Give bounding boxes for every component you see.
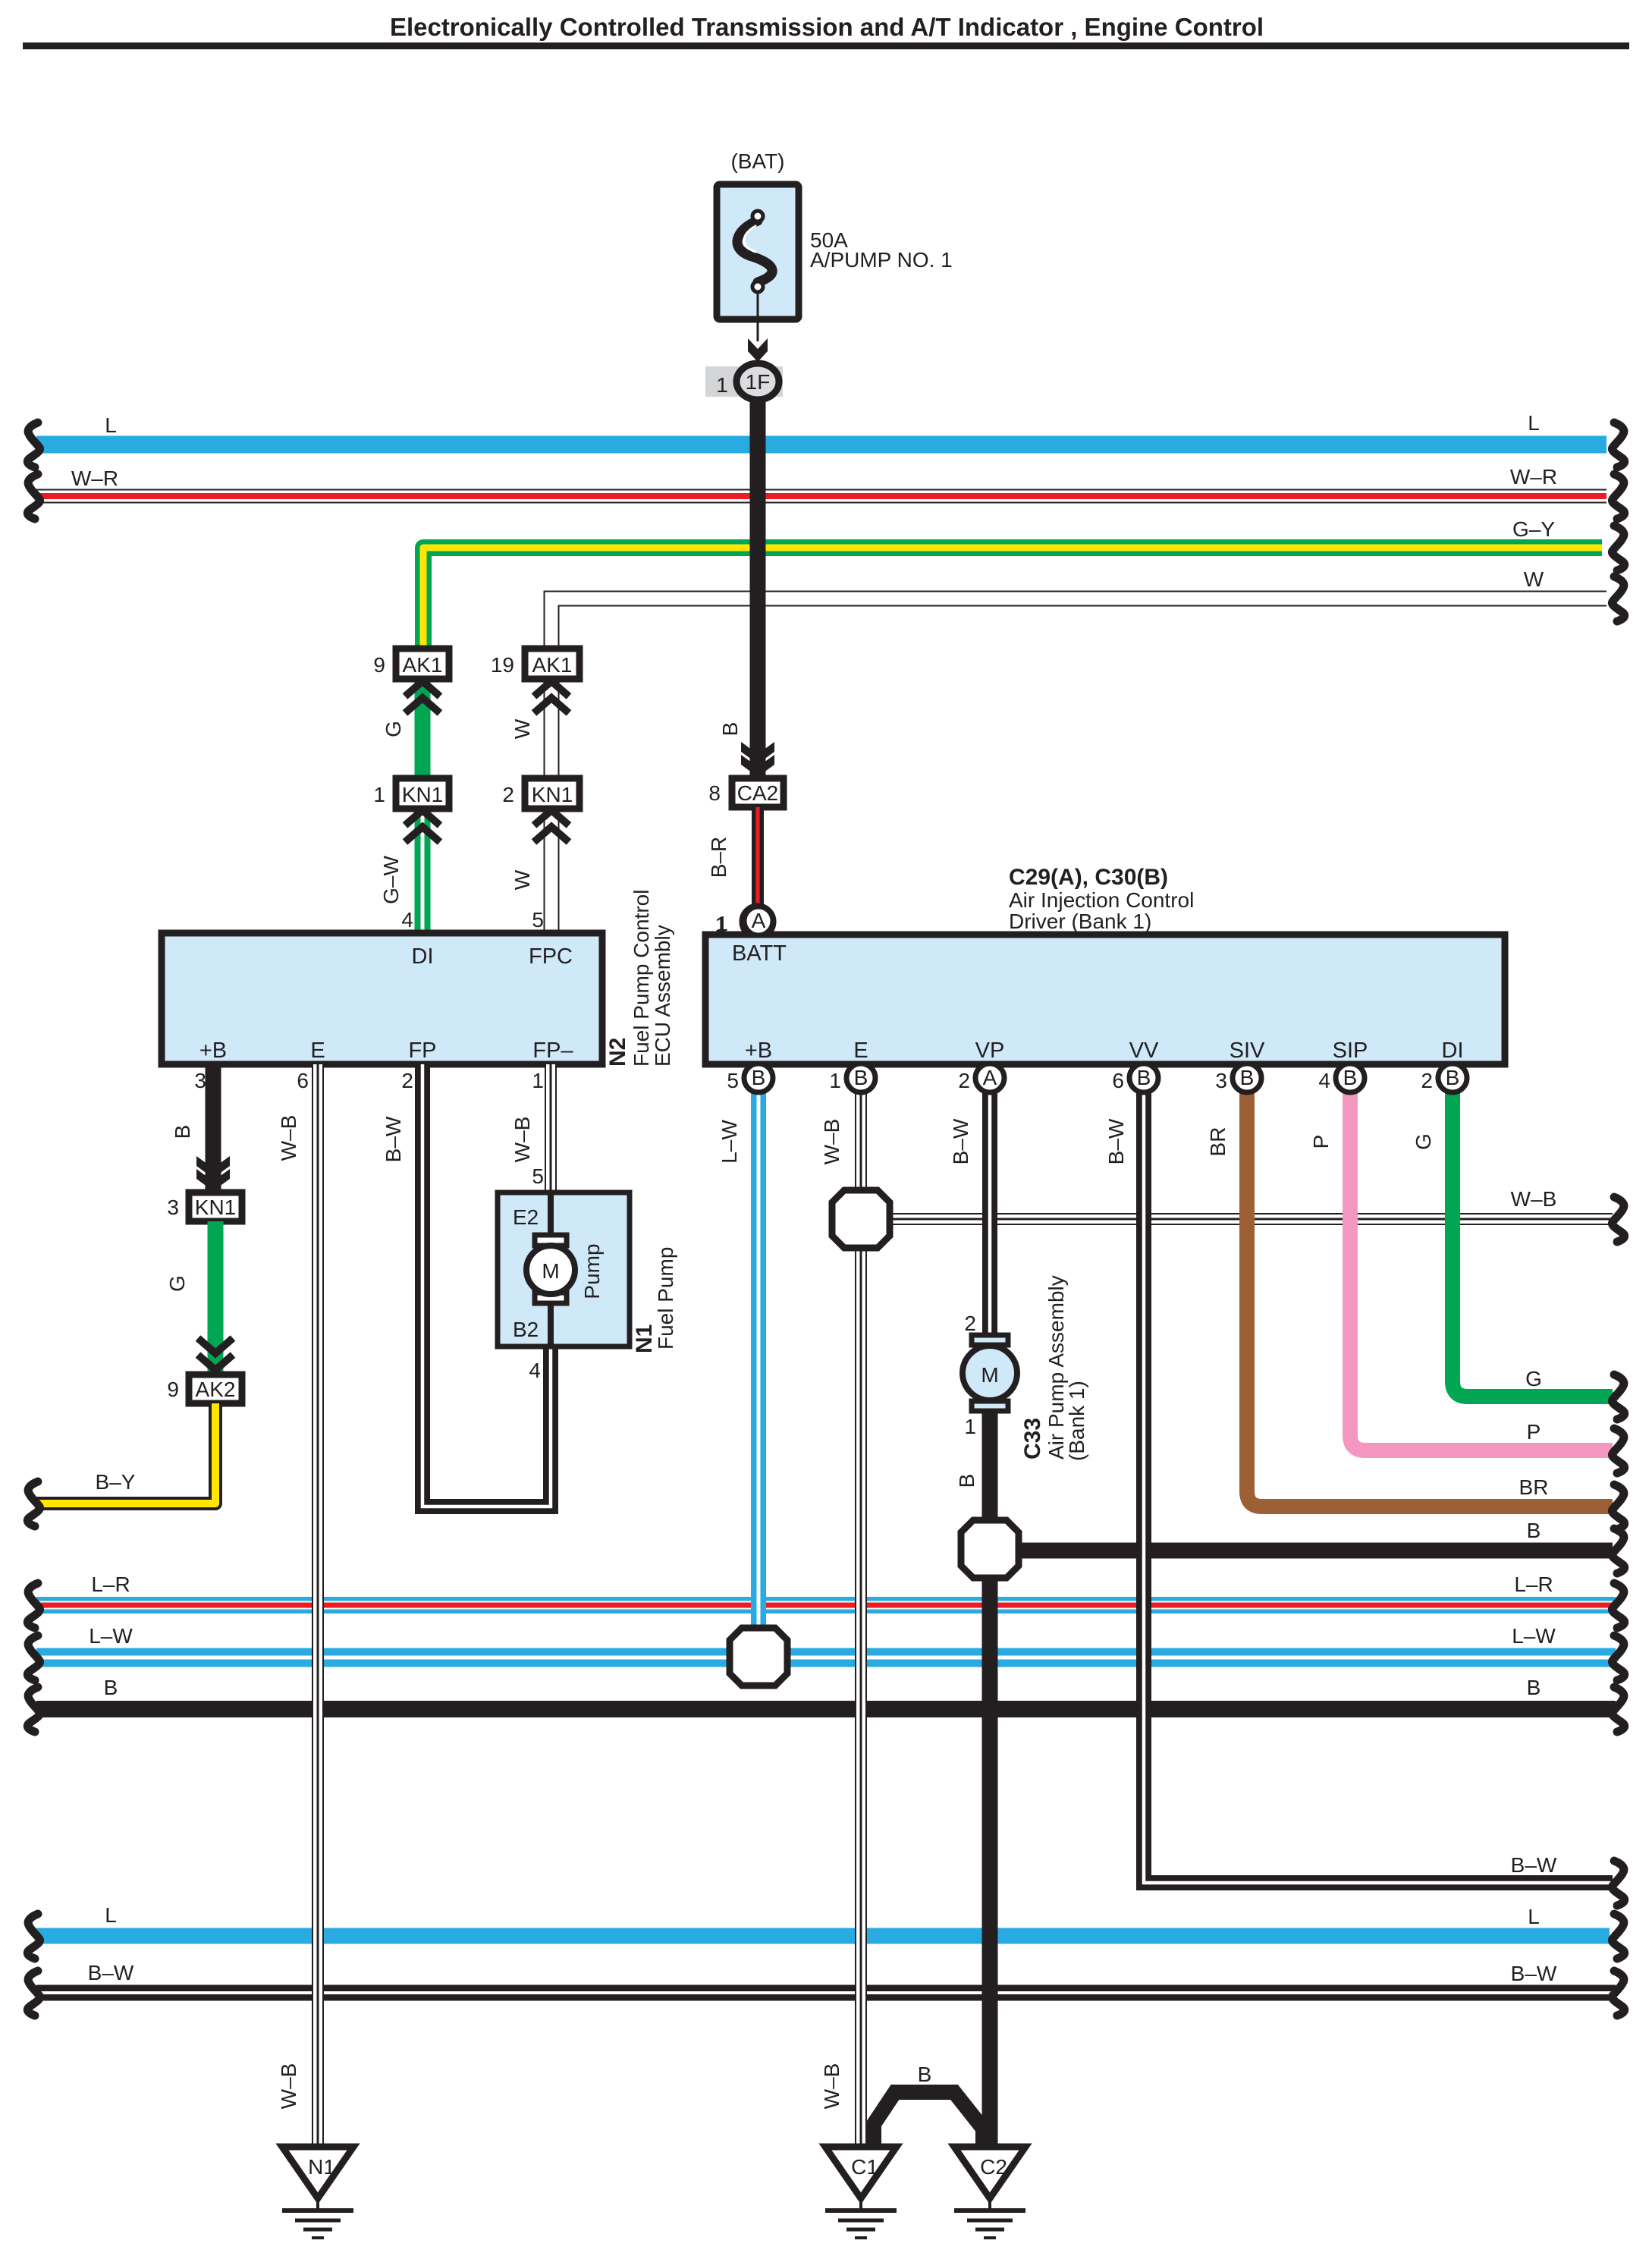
svg-text:VV: VV <box>1129 1039 1159 1063</box>
svg-text:B–R: B–R <box>707 837 730 878</box>
svg-text:Electronically Controlled Tran: Electronically Controlled Transmission a… <box>390 13 1264 41</box>
svg-text:A/PUMP NO. 1: A/PUMP NO. 1 <box>810 248 953 272</box>
svg-text:KN1: KN1 <box>195 1196 236 1219</box>
node A pin 1 <box>742 906 774 938</box>
svg-text:1: 1 <box>373 783 385 806</box>
svg-text:4: 4 <box>1318 1069 1330 1092</box>
svg-text:3: 3 <box>1215 1069 1227 1092</box>
svg-text:P: P <box>1309 1135 1333 1149</box>
svg-text:VP: VP <box>975 1039 1005 1063</box>
svg-text:KN1: KN1 <box>532 783 573 806</box>
junction octagon L-W <box>730 1628 787 1686</box>
svg-text:6: 6 <box>297 1069 309 1092</box>
wire W-B horizontal <box>861 1213 1613 1225</box>
pin 5 B <box>744 1064 773 1092</box>
svg-text:E: E <box>310 1039 325 1063</box>
svg-text:B: B <box>1240 1066 1255 1089</box>
wire W-B from E to ground N1 <box>312 1064 324 2147</box>
svg-text:8: 8 <box>708 781 721 805</box>
svg-text:3: 3 <box>167 1196 179 1219</box>
pin 2 A <box>975 1064 1004 1092</box>
svg-text:1: 1 <box>829 1069 841 1092</box>
svg-text:L: L <box>105 413 117 437</box>
svg-text:9: 9 <box>373 653 385 677</box>
svg-text:B: B <box>854 1066 868 1089</box>
svg-text:2: 2 <box>964 1312 976 1335</box>
svg-text:2: 2 <box>502 783 514 806</box>
svg-text:P: P <box>1527 1420 1541 1444</box>
svg-text:+B: +B <box>199 1039 227 1063</box>
svg-text:L–R: L–R <box>91 1573 130 1596</box>
pin 6 B <box>1129 1064 1158 1092</box>
svg-text:19: 19 <box>491 653 514 677</box>
svg-text:W–B: W–B <box>277 2063 300 2110</box>
wire bus L (top) <box>36 436 1606 454</box>
wire B from 1F to CA2 <box>750 398 766 778</box>
svg-text:5: 5 <box>532 1164 544 1188</box>
svg-text:A: A <box>752 909 766 932</box>
svg-text:AK1: AK1 <box>532 653 573 677</box>
svg-text:FPC: FPC <box>529 944 573 969</box>
svg-text:DI: DI <box>412 944 434 969</box>
svg-text:1: 1 <box>532 1069 544 1092</box>
ground N1 <box>282 2147 353 2198</box>
wire B jog C2 to C1 <box>874 2092 983 2145</box>
svg-text:FP: FP <box>408 1039 436 1063</box>
svg-text:M: M <box>542 1259 559 1283</box>
svg-text:BR: BR <box>1519 1475 1549 1499</box>
svg-text:L–W: L–W <box>718 1120 741 1164</box>
pin 1 B <box>846 1064 875 1092</box>
connector AK1 pin 19 <box>525 649 579 679</box>
svg-text:BR: BR <box>1206 1127 1230 1157</box>
svg-text:6: 6 <box>1112 1069 1124 1092</box>
svg-text:E2: E2 <box>513 1205 539 1229</box>
svg-text:G: G <box>382 721 405 737</box>
svg-text:G: G <box>1412 1133 1435 1150</box>
svg-text:W: W <box>510 718 534 739</box>
svg-text:1: 1 <box>716 373 728 397</box>
svg-text:1F: 1F <box>746 370 771 394</box>
wire B-R <box>752 807 764 907</box>
ground C2 <box>954 2147 1025 2198</box>
svg-text:G–Y: G–Y <box>1512 517 1555 541</box>
wire W lower <box>544 809 560 935</box>
svg-text:G: G <box>165 1275 189 1292</box>
svg-text:L: L <box>1528 411 1540 435</box>
svg-text:N1: N1 <box>308 2155 335 2179</box>
svg-text:CA2: CA2 <box>737 781 778 805</box>
wire W upper <box>544 679 560 778</box>
svg-text:Air Injection Control: Air Injection Control <box>1009 888 1194 912</box>
wire G <box>208 1221 224 1375</box>
svg-text:W–B: W–B <box>277 1115 300 1161</box>
svg-text:W–B: W–B <box>820 2063 843 2110</box>
connector 1F <box>705 366 783 397</box>
wire B-W from VP to motor <box>982 1077 997 1337</box>
svg-text:W: W <box>510 869 534 890</box>
wire G-W <box>415 809 431 935</box>
svg-text:2: 2 <box>401 1069 413 1092</box>
svg-text:2: 2 <box>1421 1069 1433 1092</box>
svg-text:L: L <box>105 1903 117 1927</box>
svg-text:Driver (Bank 1): Driver (Bank 1) <box>1009 910 1151 933</box>
svg-text:B–W: B–W <box>949 1118 972 1164</box>
motor M fuel pump <box>526 1246 575 1294</box>
svg-text:B: B <box>1527 1676 1541 1699</box>
svg-text:B: B <box>752 1066 766 1089</box>
svg-text:3: 3 <box>194 1069 206 1092</box>
wire G-Y bus <box>423 548 1602 654</box>
svg-text:ECU Assembly: ECU Assembly <box>651 925 674 1067</box>
svg-text:1: 1 <box>715 913 727 936</box>
svg-text:AK2: AK2 <box>196 1378 236 1401</box>
svg-text:B: B <box>171 1125 194 1139</box>
pin 3 B <box>1233 1064 1261 1092</box>
svg-text:C2: C2 <box>980 2155 1007 2179</box>
svg-text:(BAT): (BAT) <box>730 149 784 173</box>
svg-text:B: B <box>955 1474 978 1488</box>
wire bus L (lower) <box>36 1928 1610 1944</box>
svg-text:M: M <box>981 1363 998 1387</box>
wire B from +B <box>206 1064 221 1192</box>
svg-text:B–W: B–W <box>382 1116 405 1162</box>
wire G <box>415 679 431 778</box>
svg-text:SIP: SIP <box>1333 1039 1368 1063</box>
pin 4 B <box>1336 1064 1365 1092</box>
svg-text:W: W <box>1524 567 1544 591</box>
svg-text:+B: +B <box>745 1039 772 1063</box>
svg-text:L–W: L–W <box>1512 1624 1556 1648</box>
wire bus W-R <box>36 489 1606 504</box>
svg-text:W–B: W–B <box>510 1117 534 1163</box>
connector KN1 pin 2 <box>525 778 579 809</box>
svg-text:B: B <box>1343 1066 1358 1089</box>
fuel pump N1 box <box>498 1192 630 1346</box>
svg-text:B–W: B–W <box>88 1961 134 1984</box>
svg-text:5: 5 <box>727 1069 739 1092</box>
svg-text:B–W: B–W <box>1511 1962 1557 1985</box>
svg-text:B–W: B–W <box>1104 1118 1128 1164</box>
svg-text:N2: N2 <box>605 1038 630 1067</box>
svg-text:W–B: W–B <box>820 1119 843 1165</box>
wire W bus <box>551 599 1606 654</box>
wire W-B vertical to C1 <box>855 1077 867 2147</box>
svg-text:5: 5 <box>532 908 544 932</box>
junction octagon W-B <box>832 1190 890 1248</box>
svg-text:C1: C1 <box>851 2155 878 2179</box>
wire bus L-R <box>36 1597 1616 1614</box>
wire bus B-W (lower) <box>36 1985 1616 2001</box>
svg-text:B: B <box>104 1676 118 1699</box>
wire B from motor to C2 <box>982 1411 998 2147</box>
svg-text:DI: DI <box>1442 1039 1464 1063</box>
svg-text:B: B <box>718 722 742 737</box>
svg-text:B–W: B–W <box>1511 1853 1557 1877</box>
svg-text:SIV: SIV <box>1230 1039 1265 1063</box>
node A pin 1 on BATT <box>744 907 773 935</box>
svg-text:2: 2 <box>958 1069 970 1092</box>
connector AK1 pin 9 <box>396 649 449 679</box>
svg-text:W–R: W–R <box>71 467 118 490</box>
connector KN1 pin 3 <box>189 1192 242 1221</box>
svg-text:L–R: L–R <box>1514 1573 1553 1596</box>
svg-text:G–W: G–W <box>379 856 403 904</box>
svg-text:E: E <box>853 1039 868 1063</box>
connector AK2 pin 9 <box>189 1375 242 1403</box>
ECU N2 Fuel Pump Control box <box>162 933 602 1064</box>
wire B-Y <box>36 1403 215 1504</box>
svg-text:FP–: FP– <box>532 1039 573 1063</box>
svg-text:B: B <box>1137 1066 1151 1089</box>
svg-text:Fuel Pump: Fuel Pump <box>654 1247 677 1350</box>
svg-text:W–R: W–R <box>1510 465 1557 489</box>
Air Injection Control Driver box C29/C30 <box>705 935 1505 1064</box>
svg-text:BATT: BATT <box>732 941 787 966</box>
svg-text:Pump: Pump <box>580 1243 604 1299</box>
wire BR bend <box>1247 1077 1613 1507</box>
svg-text:A: A <box>983 1066 997 1089</box>
svg-text:C29(A), C30(B): C29(A), C30(B) <box>1009 865 1168 890</box>
svg-text:W–B: W–B <box>1511 1187 1557 1211</box>
svg-text:C33: C33 <box>1020 1418 1045 1460</box>
svg-text:B–Y: B–Y <box>96 1470 136 1494</box>
wire W-B from FP- to pump <box>545 1064 557 1192</box>
wire P bend <box>1350 1077 1613 1450</box>
wire bus B (middle) <box>36 1701 1616 1717</box>
svg-text:B: B <box>1527 1519 1541 1542</box>
svg-text:1: 1 <box>964 1415 976 1438</box>
wire B-W from VV bend <box>1144 1077 1613 1883</box>
connector CA2 pin 8 <box>732 778 784 807</box>
ground C1 <box>825 2147 897 2198</box>
pin 2 B (DI) <box>1438 1064 1467 1092</box>
svg-text:L: L <box>1528 1905 1540 1928</box>
svg-text:G: G <box>1525 1367 1542 1390</box>
svg-text:4: 4 <box>529 1359 541 1382</box>
svg-text:AK1: AK1 <box>403 653 443 677</box>
svg-text:Fuel Pump Control: Fuel Pump Control <box>630 890 653 1067</box>
svg-text:9: 9 <box>167 1378 179 1401</box>
wire B horizontal from junction <box>1016 1543 1613 1559</box>
svg-text:(Bank 1): (Bank 1) <box>1065 1381 1088 1461</box>
svg-text:L–W: L–W <box>89 1624 133 1648</box>
wire B-W from FP to pump <box>422 1064 551 1507</box>
svg-text:4: 4 <box>401 908 413 932</box>
wire G bend <box>1453 1077 1613 1397</box>
junction octagon B <box>961 1520 1019 1578</box>
wire L-W vertical <box>751 1077 766 1657</box>
svg-text:B: B <box>1446 1066 1460 1089</box>
svg-text:B: B <box>918 2063 932 2086</box>
svg-text:KN1: KN1 <box>402 783 443 806</box>
wire bus L-W <box>36 1648 1616 1667</box>
svg-text:B2: B2 <box>513 1318 539 1341</box>
